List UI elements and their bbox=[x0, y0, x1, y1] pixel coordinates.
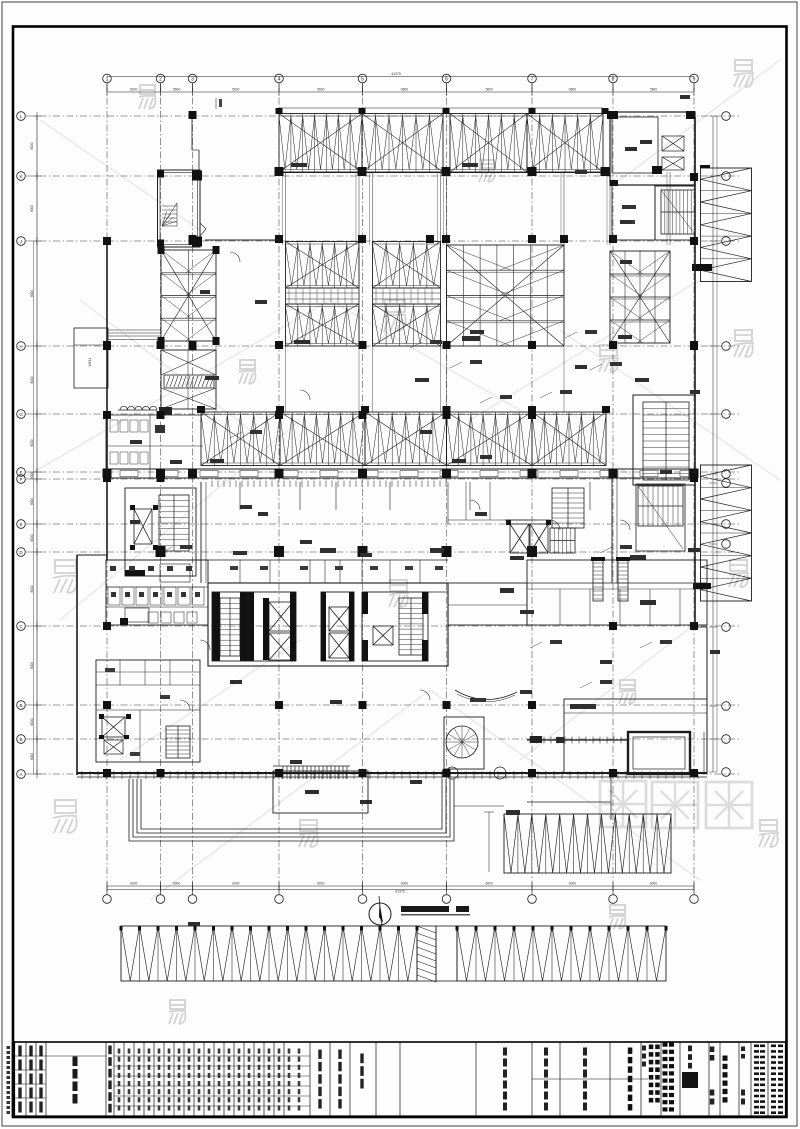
svg-text:8000: 8000 bbox=[30, 205, 34, 212]
svg-text:6: 6 bbox=[445, 76, 448, 82]
svg-text:1: 1 bbox=[106, 76, 109, 82]
svg-text:F: F bbox=[20, 477, 23, 482]
svg-text:J: J bbox=[20, 239, 22, 244]
svg-text:A: A bbox=[19, 772, 22, 777]
svg-text:9: 9 bbox=[693, 76, 696, 82]
svg-text:6000: 6000 bbox=[486, 882, 493, 886]
svg-text:8000: 8000 bbox=[30, 662, 34, 669]
svg-text:K: K bbox=[19, 174, 22, 179]
svg-text:5600: 5600 bbox=[401, 88, 408, 92]
svg-text:6000: 6000 bbox=[569, 882, 576, 886]
svg-text:5600: 5600 bbox=[232, 88, 239, 92]
svg-text:8000: 8000 bbox=[30, 585, 34, 592]
svg-text:WE14: WE14 bbox=[88, 357, 92, 366]
svg-text:6000: 6000 bbox=[232, 882, 239, 886]
svg-text:4: 4 bbox=[278, 76, 281, 82]
svg-text:8000: 8000 bbox=[30, 534, 34, 541]
svg-text:G: G bbox=[19, 412, 23, 417]
svg-text:41375: 41375 bbox=[395, 890, 405, 894]
svg-text:5600: 5600 bbox=[650, 88, 657, 92]
svg-text:8000: 8000 bbox=[30, 718, 34, 725]
svg-text:8000: 8000 bbox=[30, 753, 34, 760]
svg-text:5: 5 bbox=[361, 76, 364, 82]
svg-text:5600: 5600 bbox=[173, 88, 180, 92]
svg-text:8000: 8000 bbox=[30, 142, 34, 149]
svg-text:6000: 6000 bbox=[130, 882, 137, 886]
svg-text:7: 7 bbox=[531, 76, 534, 82]
svg-text:6000: 6000 bbox=[650, 882, 657, 886]
svg-text:H: H bbox=[19, 344, 22, 349]
svg-text:8000: 8000 bbox=[30, 472, 34, 479]
svg-text:5600: 5600 bbox=[569, 88, 576, 92]
svg-text:5600: 5600 bbox=[317, 88, 324, 92]
svg-text:8000: 8000 bbox=[30, 439, 34, 446]
svg-text:8000: 8000 bbox=[30, 376, 34, 383]
svg-text:2: 2 bbox=[159, 76, 162, 82]
svg-text:41375: 41375 bbox=[391, 72, 401, 76]
svg-text:E: E bbox=[19, 522, 22, 527]
svg-text:5600: 5600 bbox=[130, 88, 137, 92]
svg-text:B: B bbox=[19, 737, 22, 742]
svg-text:5600: 5600 bbox=[486, 88, 493, 92]
svg-text:8: 8 bbox=[612, 76, 615, 82]
svg-text:B: B bbox=[19, 703, 22, 708]
svg-text:8000: 8000 bbox=[30, 498, 34, 505]
svg-text:3: 3 bbox=[191, 76, 194, 82]
svg-text:8000: 8000 bbox=[30, 290, 34, 297]
svg-text:F: F bbox=[20, 470, 23, 475]
svg-text:6000: 6000 bbox=[173, 882, 180, 886]
svg-text:6000: 6000 bbox=[401, 882, 408, 886]
svg-text:6000: 6000 bbox=[317, 882, 324, 886]
